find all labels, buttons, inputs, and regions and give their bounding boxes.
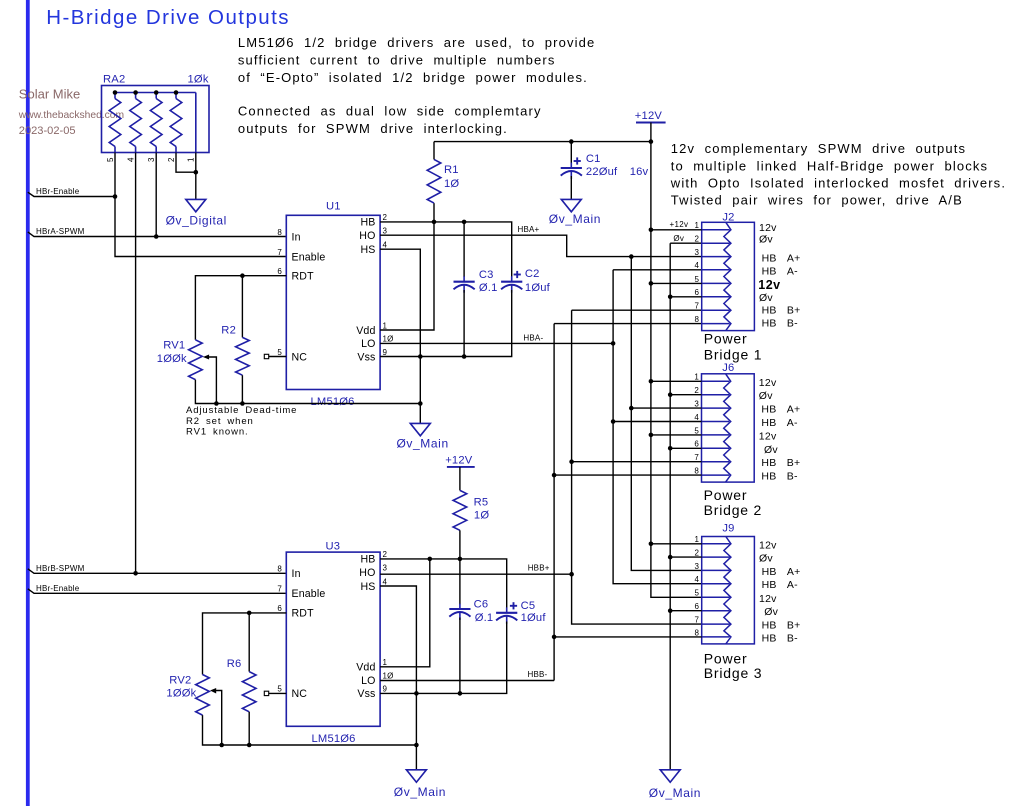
svg-text:RV2: RV2 [169,675,191,687]
svg-text:Øv: Øv [759,292,773,304]
ground 0v_Main bottom right [660,770,680,782]
svg-text:2023-02-05: 2023-02-05 [19,125,76,137]
svg-text:8: 8 [277,565,282,574]
svg-text:Øv: Øv [673,234,684,243]
wire HBA- vertical [613,269,702,271]
svg-text:Ø.1: Ø.1 [475,612,494,624]
wire HBr-Enable (top) [28,192,115,196]
wire U3 RDT net [203,613,287,675]
svg-text:7: 7 [277,248,282,257]
svg-text:R2: R2 [221,325,236,337]
svg-text:2: 2 [383,550,388,559]
svg-text:Øv_Main: Øv_Main [397,437,449,451]
svg-text:RDT: RDT [292,607,315,619]
junction pin1/pin2 [194,170,199,175]
svg-text:Øv: Øv [759,553,773,565]
svg-text:HBA-: HBA- [523,333,543,342]
U1 NC no-connect square [269,356,287,358]
junction +12V rail/stem [649,139,654,144]
svg-text:1: 1 [383,321,388,330]
svg-text:12v: 12v [759,430,777,442]
svg-text:In: In [292,231,301,243]
svg-text:12v: 12v [759,593,777,605]
svg-text:NC: NC [292,351,308,363]
svg-text:Øv_Digital: Øv_Digital [166,214,227,228]
wire U1 HO / net HBA+ [380,235,702,256]
wire R2 bottom [241,375,243,403]
svg-text:HB: HB [360,217,375,229]
wire U3 HO / net HBB+ [380,573,571,575]
svg-text:Øv: Øv [759,390,773,402]
svg-text:8: 8 [277,228,282,237]
svg-text:LM51Ø6: LM51Ø6 [312,733,356,745]
wire U1 Vss [380,290,512,357]
svg-text:Enable: Enable [292,588,326,600]
connector J2 [702,222,755,330]
svg-text:HBA-: HBA- [762,579,799,591]
svg-text:C6: C6 [474,599,489,611]
svg-text:16v: 16v [630,166,649,178]
ground 0v_Main below U1 [410,423,430,435]
svg-text:Bridge 2: Bridge 2 [704,502,763,518]
svg-text:HBA+: HBA+ [518,225,540,234]
svg-text:Vss: Vss [357,688,375,700]
svg-text:of “E-Opto” isolated 1/2 bridg: of “E-Opto” isolated 1/2 bridge power mo… [238,70,588,85]
svg-text:Øv_Main: Øv_Main [549,212,601,226]
svg-text:H-Bridge Drive Outputs: H-Bridge Drive Outputs [46,6,290,29]
svg-text:In: In [292,568,301,580]
junction HBB- / J6 pin8 [552,473,557,478]
svg-text:12v: 12v [759,377,777,389]
svg-text:3: 3 [147,157,156,162]
svg-text:R6: R6 [227,658,242,670]
junction C3/Vss [462,354,467,359]
junction RDT/R6 [247,611,252,616]
svg-text:HBrA-SPWM: HBrA-SPWM [36,227,85,236]
wire U3 HS to ground [380,586,416,770]
svg-text:4: 4 [695,575,700,584]
svg-text:+12v: +12v [670,220,689,229]
svg-text:J2: J2 [722,212,734,224]
svg-text:1Ø: 1Ø [383,672,394,681]
svg-text:Bridge 1: Bridge 1 [704,347,763,363]
wire RA2 pin3 [155,153,157,237]
svg-text:R1: R1 [444,164,459,176]
wire +12V top rail [434,141,651,143]
RV1 wiper arrow [203,355,209,360]
wire HBrA-SPWM to U1 In [28,232,287,237]
svg-text:HBA-: HBA- [762,266,799,278]
svg-text:+12V: +12V [445,454,473,466]
svg-text:4: 4 [383,577,388,586]
wire RA2 pin2 jog [176,153,196,173]
svg-text:to multiple linked Half-Bridge: to multiple linked Half-Bridge power blo… [671,158,988,173]
junction HBA+ / J6 pin3 [629,406,634,411]
ground 0v_Main below U3 [406,770,426,782]
svg-text:22Øuf: 22Øuf [586,166,618,178]
wire R6 bottom [248,712,250,745]
junction RDT / R2 [240,273,245,278]
wire U1 LO / net HBA- [380,342,613,344]
junction R6/rail [247,743,252,748]
svg-text:8: 8 [695,628,700,637]
svg-text:C5: C5 [521,600,536,612]
svg-text:Vdd: Vdd [356,662,375,674]
svg-text:HBB+: HBB+ [762,304,801,316]
svg-text:2: 2 [383,213,388,222]
svg-text:7: 7 [277,585,282,594]
svg-text:U1: U1 [326,201,341,213]
svg-text:5: 5 [277,685,282,694]
svg-text:1: 1 [695,221,700,230]
wire R6 top [248,613,250,672]
sheet border line [26,0,30,806]
svg-text:4: 4 [126,157,135,162]
svg-text:1Øuf: 1Øuf [521,612,547,624]
svg-text:1: 1 [383,658,388,667]
svg-text:R2 set when: R2 set when [186,416,254,427]
svg-text:RV1: RV1 [163,339,185,351]
svg-text:7: 7 [694,453,699,462]
junction HS/Vss (U3) [414,691,419,696]
svg-text:HBB-: HBB- [761,471,798,483]
junction HBA- feed [611,341,616,346]
junction HS/Vss [418,354,423,359]
wire RV2 bottom rail [203,715,417,745]
junction HBA- / J6 pin4 [611,419,616,424]
svg-text:Adjustable Dead-time: Adjustable Dead-time [186,405,297,416]
svg-text:Ø.1: Ø.1 [479,282,498,294]
svg-text:www.thebackshed.com: www.thebackshed.com [18,110,124,121]
capacitor C5 10uf [496,612,517,614]
junction HBrB-SPWM / RA2 pin4 [133,571,138,576]
IC U1 LM5106 [286,215,380,389]
svg-text:with Opto Isolated interlocked: with Opto Isolated interlocked mosfet dr… [670,175,1006,190]
wire R5 bottom [459,530,461,559]
svg-text:Øv_Main: Øv_Main [394,785,446,799]
svg-text:2: 2 [695,235,700,244]
svg-text:Twisted pair wires for power,: Twisted pair wires for power, drive A/B [671,193,963,208]
wire HBB+ vertical [572,309,702,311]
svg-text:2: 2 [167,157,176,162]
wire U3 Vss [380,622,507,694]
capacitor C6 0.1 [459,559,461,605]
svg-text:C1: C1 [586,153,601,165]
svg-text:2: 2 [695,549,700,558]
svg-text:outputs for SPWM drive interlo: outputs for SPWM drive interlocking. [238,121,508,136]
svg-text:HS: HS [360,244,375,256]
svg-text:6: 6 [695,602,700,611]
junction wiper/rail [214,401,219,406]
svg-text:HBB-: HBB- [762,632,799,644]
svg-text:7: 7 [695,302,700,311]
svg-text:5: 5 [695,589,700,598]
svg-text:RA2: RA2 [103,74,125,86]
svg-text:3: 3 [694,400,699,409]
junction rail/HS vertical [418,401,423,406]
svg-text:6: 6 [277,267,282,276]
svg-text:RDT: RDT [292,271,315,283]
svg-text:LO: LO [361,675,375,687]
svg-text:HBrB-SPWM: HBrB-SPWM [36,564,85,573]
capacitor C3 0.1 [463,222,465,277]
svg-text:4: 4 [694,413,699,422]
junction RV2 wiper/rail [219,743,224,748]
svg-text:5: 5 [695,275,700,284]
svg-text:3: 3 [383,563,388,572]
svg-text:4: 4 [695,261,700,270]
svg-text:8: 8 [694,467,699,476]
IC U3 LM5106 [286,552,380,726]
junction HB/Vdd (U3) [428,557,433,562]
svg-text:Vss: Vss [357,351,375,363]
svg-text:Power: Power [704,650,748,666]
wire J6 pin stubs [651,380,702,382]
wire HBB- vertical [554,323,702,325]
svg-text:LO: LO [361,338,375,350]
svg-text:1Øuf: 1Øuf [525,282,551,294]
svg-text:Øv: Øv [764,606,778,618]
connector J6 [702,374,755,482]
svg-text:Connected as dual low side com: Connected as dual low side complemtary [238,104,542,119]
resistor R2 [236,337,250,375]
svg-text:Øv_Main: Øv_Main [649,786,701,800]
wire +12V distribution vertical [651,142,702,598]
svg-text:3: 3 [695,248,700,257]
junction HBA+ branch [629,254,634,259]
resistor R6 [242,672,256,712]
svg-text:5: 5 [694,426,699,435]
svg-text:LM51Ø6: LM51Ø6 [311,396,355,408]
svg-text:HO: HO [359,567,375,579]
svg-text:1ØØk: 1ØØk [166,687,196,699]
svg-text:C2: C2 [525,268,540,280]
svg-text:9: 9 [383,348,388,357]
svg-text:1: 1 [187,157,196,162]
junction HBr-Enable / pin5 [113,194,118,199]
junction HB/Vdd/R1 [432,220,437,225]
potentiometer RV1 100k [189,340,203,380]
RV2 wiper arrow [210,688,216,694]
svg-text:1Ø: 1Ø [444,178,459,190]
svg-text:1Ø: 1Ø [383,335,394,344]
svg-text:9: 9 [383,685,388,694]
resistor R1 10 [427,159,441,203]
svg-text:HBA+: HBA+ [761,404,800,416]
svg-text:5: 5 [277,348,282,357]
junction C3/HB [462,220,467,225]
power +12V (bottom) [447,466,475,468]
wire HBrB-SPWM to U3 In [28,569,287,574]
svg-text:HBr-Enable: HBr-Enable [36,584,80,593]
wire J2 pin5 stub [651,282,702,284]
svg-text:HBB-: HBB- [762,317,799,329]
svg-text:6: 6 [277,604,282,613]
junction HB/R5/C6 [458,557,463,562]
svg-text:HBB-: HBB- [528,670,548,679]
wire RA2 pin1 to ground [195,153,197,200]
svg-text:1: 1 [695,535,700,544]
svg-text:Solar Mike: Solar Mike [19,86,80,101]
wire HBr-Enable (bottom) to U3 Enable [28,589,287,594]
svg-text:HO: HO [359,230,375,242]
svg-text:RV1 known.: RV1 known. [186,427,249,438]
svg-text:J6: J6 [722,362,734,374]
ground 0v_Main below C1 [561,199,581,211]
wire RA2 pin5 to U1 Enable [115,153,286,257]
junction C6/Vss [458,691,463,696]
svg-text:12v complementary SPWM drive o: 12v complementary SPWM drive outputs [671,141,966,156]
svg-text:7: 7 [695,616,700,625]
wire U1 RDT net [195,276,286,340]
svg-text:3: 3 [695,562,700,571]
svg-text:1Øk: 1Øk [188,74,209,86]
wire RA2 pin4 down to HBrB-SPWM [135,153,137,574]
ground 0v_Digital [186,199,206,211]
junction HBrA-SPWM / pin3 [154,234,159,239]
svg-text:NC: NC [292,688,308,700]
svg-text:4: 4 [383,241,388,250]
svg-text:C3: C3 [479,269,494,281]
svg-text:LM51Ø6 1/2 bridge drivers are: LM51Ø6 1/2 bridge drivers are used, to p… [238,35,596,50]
svg-text:6: 6 [694,440,699,449]
svg-text:U3: U3 [326,541,341,553]
svg-text:R5: R5 [474,496,489,508]
svg-text:12v: 12v [758,278,780,292]
svg-text:Øv: Øv [759,234,773,246]
wire J9 pin stubs [651,543,702,545]
junction R2/rail [240,401,245,406]
junction rail/HS (U3) [414,743,419,748]
svg-text:8: 8 [695,315,700,324]
junction HBB+ feed [569,572,574,577]
capacitor C2 10uf [501,281,522,283]
svg-text:12v: 12v [759,222,777,234]
svg-text:HB: HB [360,554,375,566]
wire U3 HB net [380,559,507,608]
junction C1/+12V rail [569,139,574,144]
wire U3 LO / net HBB- [380,680,554,682]
svg-text:sufficient current to drive mu: sufficient current to drive multiple num… [238,53,556,68]
wire HBA+ vertical [631,257,701,571]
svg-text:Vdd: Vdd [356,325,375,337]
wire 0v distribution vertical [670,242,702,244]
wire R1 top [433,142,435,160]
svg-text:HBr-Enable: HBr-Enable [36,187,80,196]
svg-text:Øv: Øv [764,444,778,456]
connector J9 [702,537,755,644]
svg-text:HBA+: HBA+ [762,252,801,264]
svg-text:HBA+: HBA+ [762,566,801,578]
wire J2 pin6 stub [670,296,702,298]
svg-text:HBB+: HBB+ [761,457,800,469]
svg-text:Bridge 3: Bridge 3 [704,665,763,681]
wire R2 top [241,276,243,338]
wire RV1 bottom rail [195,380,420,404]
wire U1 HS to ground [380,249,420,423]
U3 NC no-connect square [269,692,287,694]
svg-text:1ØØk: 1ØØk [157,353,187,365]
resistor array RA2 10k [102,86,210,153]
svg-text:Power: Power [704,487,748,503]
wire U1 Vdd to HB [380,203,434,330]
svg-text:J9: J9 [722,523,734,535]
svg-text:Enable: Enable [292,251,326,263]
svg-text:HBB+: HBB+ [762,620,801,632]
svg-text:1: 1 [694,373,699,382]
svg-text:+12V: +12V [635,110,663,122]
wire U3 Vdd to HB [380,559,430,667]
resistor R5 10 [453,490,467,530]
svg-text:HBA-: HBA- [761,417,798,429]
wire U1 HB net [380,222,512,277]
capacitor C1 220uf [570,142,572,164]
svg-text:3: 3 [383,227,388,236]
svg-text:5: 5 [106,157,115,162]
svg-text:HS: HS [360,581,375,593]
svg-text:2: 2 [694,386,699,395]
svg-text:Power: Power [704,331,748,347]
svg-text:6: 6 [695,288,700,297]
power +12V (top) [636,122,666,124]
svg-text:1Ø: 1Ø [474,509,489,521]
wire J2 pin1 stub [651,229,702,231]
svg-text:HBB+: HBB+ [528,564,550,573]
potentiometer RV2 100k [196,675,210,716]
svg-text:12v: 12v [759,539,777,551]
junction HBB- / J9 pin8 [552,635,557,640]
junction HBB+ / J6 pin7 [569,459,574,464]
